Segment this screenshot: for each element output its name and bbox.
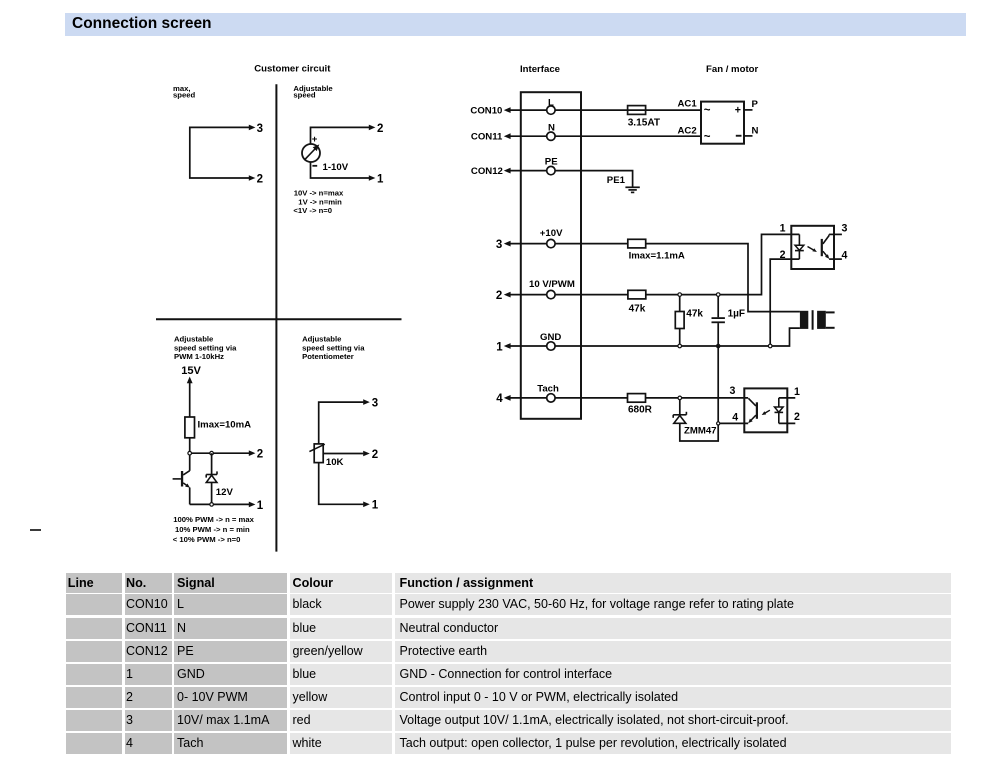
motor winding core line [812,310,814,330]
wire: PE terminal lead-out left [510,170,547,172]
wire: N to fan AC2 [555,135,701,137]
title bar [65,13,966,36]
arrow to 1 [504,343,511,349]
svg-text:Adjustable: Adjustable [302,335,342,344]
wire: N output stub [744,135,753,137]
note: Adjustable speed setting via PWM 1-10kHz [174,335,237,362]
svg-text:4: 4 [732,411,738,423]
opto U1 phototransistor [821,234,830,259]
svg-text:P: P [752,99,759,110]
label 47k shunt [686,309,703,320]
svg-text:N: N [752,125,759,136]
arrow into terminal 3 [249,125,256,131]
data table [66,573,123,594]
svg-text:< 10% PWM -> n=0: < 10% PWM -> n=0 [173,535,241,544]
arrow into terminal 2 [249,175,256,181]
label 10K [326,457,344,468]
svg-text:Tach: Tach [537,384,559,395]
svg-text:3: 3 [372,398,378,410]
wire: emitter to terminal 1 [190,488,250,505]
arrow into terminal 1 [369,175,376,181]
arrow to 3 [504,241,511,247]
wire: U1 pin 3 stub [829,233,842,235]
label terminal 2 [257,173,263,185]
node: 47k top junction [678,293,682,297]
note: PWM to speed mapping [173,515,255,544]
fan/motor supply box [701,102,744,144]
customer circuit divider vertical [275,84,277,551]
svg-text:3: 3 [496,239,502,251]
terminal name Tach [537,384,559,395]
label ZMM47 [684,426,717,437]
wire: source minus to terminal 1 [311,162,370,178]
svg-text:PWM 1-10kHz: PWM 1-10kHz [174,352,224,361]
terminal circle L [547,106,555,114]
wire: GND rail to motor bottom [555,328,800,346]
wire: L to fan AC1 [555,109,701,111]
svg-text:CON10: CON10 [470,106,502,117]
label U2 pin 2 [794,411,800,423]
opto U2 phototransistor [748,398,758,423]
svg-text:2: 2 [794,411,800,423]
node: capacitor bottom junction (filled) [716,344,721,349]
section label: Fan / motor [706,64,758,75]
arrow to CON12 [504,168,511,174]
section label: Interface [520,64,560,75]
svg-text:15V: 15V [181,365,201,377]
voltage source adjustment arrow [304,142,321,160]
label U2 pin 4 [732,411,738,423]
svg-text:Fan / motor: Fan / motor [706,64,758,75]
opto U1 light arrow [808,247,817,253]
arrow into terminal 3 [363,399,370,405]
opto U1 LED [795,234,804,259]
wire: resistor to collector node [189,438,191,471]
svg-text:speed: speed [293,91,316,100]
svg-text:2: 2 [257,173,263,185]
zener diode 12V [206,453,217,504]
wire: +10V terminal lead-out left [510,243,547,245]
svg-text:3: 3 [730,385,736,397]
wire: Tach to opto U2 pin 3 [555,397,748,399]
label U1 pin 4 [842,250,848,262]
margin dash [30,529,40,531]
label P [752,99,759,110]
svg-text:Customer circuit: Customer circuit [254,63,331,74]
label 1uF [728,309,745,320]
opto U2 light arrow [762,410,770,415]
node: zener Tach junction [678,396,682,400]
label Imax=10mA [198,419,252,430]
svg-text:47k: 47k [629,303,646,314]
wire: jumper bracket terminal 3 to terminal 2 [190,127,249,178]
wire: U1 pin 4 stub [829,258,842,260]
svg-text:3.15AT: 3.15AT [628,117,661,128]
svg-text:2: 2 [496,290,502,302]
arrow into terminal 2 [249,450,256,456]
label 47k series [629,303,646,314]
terminal name 10 V/PWM [529,279,575,290]
label 15V [181,365,201,377]
wire: pot top to terminal 3 [319,402,364,444]
interface box [521,92,581,419]
wire: N terminal lead-out left [510,135,547,137]
voltage source minus sign [312,165,317,167]
svg-text:~: ~ [704,131,711,143]
svg-text:10V -> n=max: 10V -> n=max [294,189,344,198]
wire: GND terminal lead-out left [510,345,547,347]
label terminal 2 [377,123,383,135]
svg-text:3: 3 [842,222,848,234]
svg-text:2: 2 [377,123,383,135]
svg-text:4: 4 [496,393,503,405]
label terminal 1 [257,500,264,512]
svg-text:PE1: PE1 [607,175,626,186]
terminal circle 10 V/PWM [547,290,555,298]
terminal circle PE [547,166,555,174]
customer circuit divider horizontal [156,318,402,320]
resistor 680R [628,394,646,403]
wire: L terminal lead-out left [510,109,547,111]
fan box minus symbol [736,135,742,137]
motor winding secondary (filled) [817,311,826,329]
node: collector junction [188,451,192,455]
node: 47k bottom junction [678,344,682,348]
fan box plus symbol [735,105,741,117]
terminal name N [548,123,555,134]
svg-text:CON12: CON12 [471,166,503,177]
arrow to 4 [504,395,511,401]
motor winding primary (filled) [800,311,808,329]
label 3 [496,239,502,251]
terminal name GND [540,332,561,343]
svg-text:1-10V: 1-10V [323,162,349,173]
fan box AC symbol top [704,104,711,116]
label CON11 [471,132,503,143]
svg-text:10 V/PWM: 10 V/PWM [529,279,575,290]
svg-text:3: 3 [257,123,263,135]
node: U1 pin2 GND junction [768,344,772,348]
arrow into terminal 2 [363,451,370,457]
wire: P output stub [744,109,753,111]
wire: 10 V/PWM terminal lead-out left [510,294,547,296]
arrow to CON11 [504,133,511,139]
svg-text:100% PWM -> n = max: 100% PWM -> n = max [173,515,254,524]
node: zener anode junction [210,503,214,507]
svg-text:10K: 10K [326,457,344,468]
wire: pot bottom to terminal 1 [319,463,364,505]
arrow into terminal 2 [369,125,376,131]
label CON10 [470,106,502,117]
wire: 10V/PWM rail to opto U1 pin 1 [555,234,799,294]
motor winding bottom stub [826,327,835,329]
svg-text:ZMM47: ZMM47 [684,426,717,437]
voltage source 1-10V circle [302,144,320,162]
label U1 pin 1 [780,222,786,234]
arrow to 2 [504,292,511,298]
label CON12 [471,166,503,177]
label Imax=1.1mA [629,251,685,262]
label 12V [216,487,234,498]
wire: U2 pin 4 branch [718,422,748,424]
section label: Customer circuit [254,63,331,74]
svg-text:<1V -> n=0: <1V -> n=0 [293,206,332,215]
arrow to CON10 [504,107,511,113]
svg-text:Potentiometer: Potentiometer [302,352,354,361]
title text [72,13,212,36]
svg-text:+: + [735,105,741,117]
svg-text:1µF: 1µF [728,309,745,320]
arrow into terminal 1 [363,502,370,508]
note: max, speed [173,84,196,100]
label U1 pin 2 [780,249,786,261]
ground PE1 [625,187,639,192]
label terminal 1 [372,500,379,512]
svg-text:+: + [312,134,318,145]
zener diode ZMM47 [673,398,686,423]
terminal circle Tach [547,394,555,402]
svg-text:10% PWM -> n = min: 10% PWM -> n = min [175,525,250,534]
resistor Imax=10mA [185,417,195,438]
svg-text:1: 1 [780,222,786,234]
note: Adjustable speed [293,84,333,100]
terminal name PE [545,156,558,167]
node: capacitor top junction [716,293,720,297]
svg-text:1: 1 [372,500,379,512]
voltage source plus sign [312,134,318,145]
wire: +10V rail to motor top [555,244,800,312]
svg-text:1: 1 [794,386,800,398]
svg-text:speed: speed [173,91,196,100]
arrow into terminal 1 [249,502,256,508]
svg-text:680R: 680R [628,405,653,416]
transistor Q1 (NPN open collector) [173,471,190,488]
svg-text:CON11: CON11 [471,132,503,143]
label terminal 1 [377,173,384,185]
wire: PE to earth [555,171,633,188]
label N [752,125,759,136]
svg-text:2: 2 [780,249,786,261]
wire: 15V supply with up arrow [187,377,193,418]
wire: source plus to terminal 2 [311,127,370,144]
label 1 [496,341,503,353]
svg-text:47k: 47k [686,309,703,320]
label 680R [628,405,653,416]
label terminal 2 [372,449,378,461]
resistor 47k shunt [675,295,684,346]
terminal name +10V [540,228,563,239]
label AC1 [678,99,698,110]
label terminal 3 [257,123,263,135]
label 4 [496,393,503,405]
label U2 pin 3 [730,385,736,397]
label terminal 2 [257,449,263,461]
note: Adjustable speed setting via Potentiometer [302,335,365,362]
motor winding top stub [826,311,835,313]
svg-text:Adjustable: Adjustable [174,335,214,344]
schematic SVG placeholder [0,0,1000,560]
svg-text:4: 4 [842,250,848,262]
label U1 pin 3 [842,222,848,234]
resistor 47k series [628,290,646,299]
svg-text:AC1: AC1 [678,99,698,110]
terminal circle GND [547,342,555,350]
wire: pot wiper to terminal 2 [323,453,363,455]
capacitor 1uF [712,295,725,346]
label 3.15AT [628,117,661,128]
svg-text:2: 2 [372,449,378,461]
terminal circle +10V [547,239,555,247]
label PE1 [607,175,626,186]
wire: Tach terminal lead-out left [510,397,547,399]
label 2 [496,290,502,302]
terminal name L [548,97,554,108]
node: U2 pin4 junction [717,422,720,425]
wire: GND drop to zener anode loop [680,346,718,441]
opto U2 LED [775,398,784,424]
label AC2 [678,125,697,136]
svg-text:12V: 12V [216,487,234,498]
svg-text:1: 1 [377,173,384,185]
label terminal 3 [372,398,378,410]
potentiometer 10K [309,444,324,463]
wire: U2 pin 2 stub [779,422,796,424]
svg-text:~: ~ [704,104,711,116]
wire: U2 pin 1 stub [779,397,796,399]
fan box AC symbol bottom [704,131,711,143]
wire: node to terminal 2 [190,452,250,454]
svg-text:1: 1 [257,500,264,512]
opto-isolator U2 box [744,388,787,432]
opto-isolator U1 box [791,226,834,269]
svg-text:Imax=1.1mA: Imax=1.1mA [629,251,685,262]
fuse 3.15AT [628,106,646,115]
svg-text:+10V: +10V [540,228,563,239]
note: voltage to speed mapping [293,189,344,215]
label U2 pin 1 [794,386,800,398]
svg-text:2: 2 [257,449,263,461]
node: zener cathode junction [210,451,214,455]
terminal circle N [547,132,555,140]
wire: U1 pin 2 to GND rail [770,259,799,346]
svg-text:AC2: AC2 [678,125,697,136]
svg-text:Interface: Interface [520,64,560,75]
label 1-10V [323,162,349,173]
svg-text:Imax=10mA: Imax=10mA [198,419,252,430]
svg-text:1: 1 [496,341,503,353]
resistor Imax=1.1mA [628,239,646,248]
